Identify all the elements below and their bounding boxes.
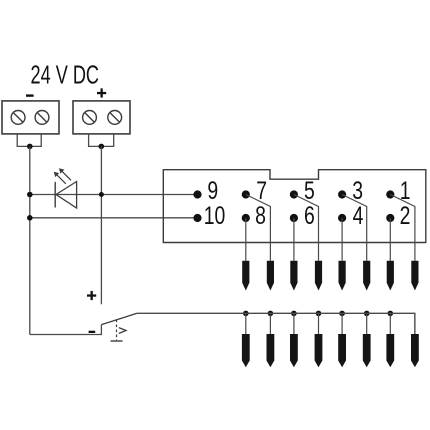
svg-text:24 V DC: 24 V DC (31, 60, 99, 89)
svg-text:2: 2 (400, 201, 411, 229)
svg-text:9: 9 (207, 177, 218, 205)
svg-text:8: 8 (255, 201, 266, 229)
svg-text:10: 10 (204, 201, 226, 229)
svg-text:4: 4 (353, 201, 364, 229)
svg-text:6: 6 (304, 201, 315, 229)
